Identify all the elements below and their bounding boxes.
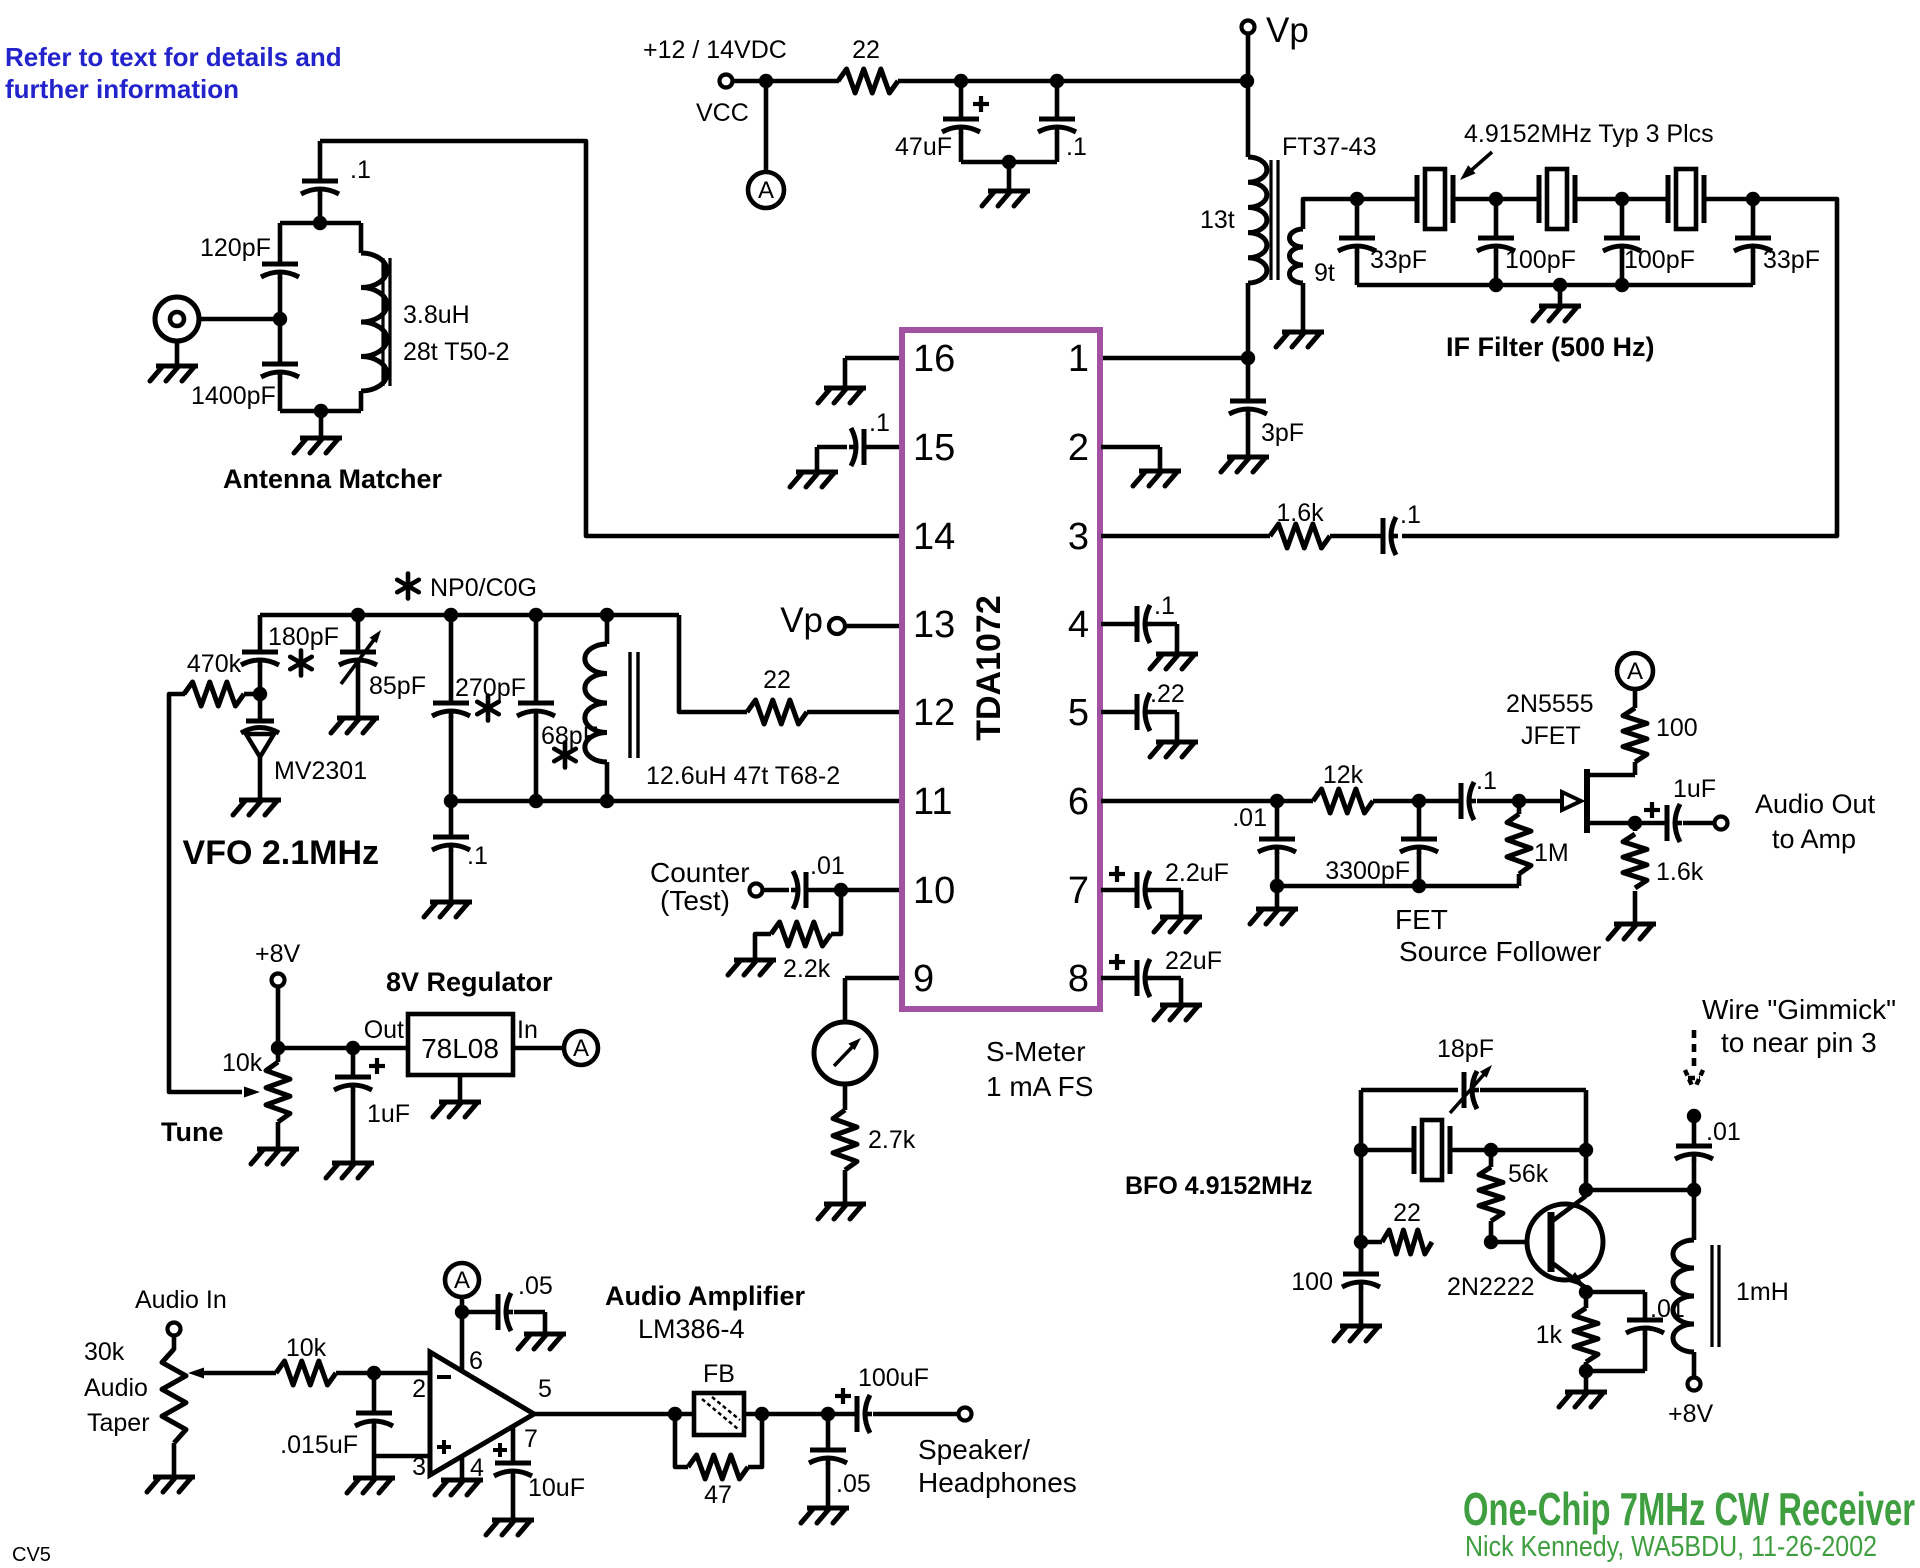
svg-text:further information: further information (5, 74, 239, 104)
wire: emitter to .01 (1586, 1290, 1645, 1295)
wire: BNC shell to ground (175, 341, 180, 364)
capacitor .01 (gimmick) (1675, 1116, 1713, 1190)
wire: 470k to tune pot (169, 694, 242, 1092)
text Taper (87, 1409, 150, 1437)
value 1uF (regulator) (367, 1100, 410, 1128)
value 100 (drain) (1656, 714, 1698, 742)
label JFET (1521, 722, 1581, 750)
svg-text:7: 7 (524, 1425, 538, 1453)
pin 7 label (524, 1425, 538, 1453)
meter A (supply current) (748, 172, 784, 208)
svg-text:.1: .1 (1476, 767, 1497, 795)
title Tune (161, 1117, 224, 1147)
wire: pin3 stub (1101, 534, 1270, 539)
junction emitter node (1579, 1285, 1593, 1299)
wire: matcher left lower (278, 377, 283, 411)
value 22 (pin12) (763, 666, 791, 694)
value 2.2uF (1165, 859, 1229, 887)
wire: 13t bottom to pin1 node (1246, 283, 1251, 358)
terminal audio in (168, 1323, 181, 1336)
pin numbers right (1,2,3,4,5,6,7,8) (1068, 338, 1089, 1000)
label 2N5555 (1506, 690, 1594, 718)
junction pin6 .05 node (455, 1305, 469, 1319)
capacitor .01 (pin6 shunt) (1258, 801, 1296, 886)
junction bus 85pF (351, 608, 365, 622)
wire: VFO top bus left drop (258, 615, 263, 651)
svg-text:1uF: 1uF (1673, 775, 1716, 803)
value .05 (output) (836, 1470, 871, 1498)
wire: xtal left lead (1361, 1148, 1414, 1153)
wire: VFO bottom bus to pin11 (451, 799, 899, 804)
svg-text:NP0/C0G: NP0/C0G (430, 574, 537, 602)
title VFO 2.1MHz (183, 834, 379, 872)
svg-text:Source Follower: Source Follower (1399, 936, 1601, 967)
svg-text:CV5: CV5 (12, 1544, 51, 1566)
capacitor .01 (counter) (763, 871, 899, 909)
svg-text:Audio Amplifier: Audio Amplifier (605, 1281, 805, 1311)
ground (pin16) (818, 388, 866, 403)
ground (2.2k) (728, 960, 776, 975)
resistor 2.2k (771, 922, 831, 946)
svg-text:30k: 30k (84, 1338, 125, 1366)
value 3.8uH (403, 301, 470, 329)
junction bus 100pF-1 (1489, 278, 1503, 292)
meter A (LM386 supply) (445, 1263, 479, 1297)
junction 8V node (271, 1041, 285, 1055)
svg-text:1k: 1k (1536, 1321, 1563, 1349)
svg-text:.01: .01 (1232, 804, 1267, 832)
wire: 78L08 ground stem (458, 1075, 463, 1100)
junction counter node (834, 883, 848, 897)
svg-text:.05: .05 (836, 1470, 871, 1498)
svg-text:Refer to text for details and: Refer to text for details and (5, 42, 342, 72)
svg-text:Wire "Gimmick": Wire "Gimmick" (1702, 994, 1896, 1025)
capacitor .1 (antenna coupling) (301, 141, 339, 223)
junction BFO base row left (1354, 1235, 1368, 1249)
value 180pF (268, 623, 339, 651)
value .01 (emitter) (1650, 1295, 1685, 1323)
text Headphones (918, 1467, 1077, 1498)
wire: crystal Y3 to output node (1704, 197, 1753, 202)
svg-text:13t: 13t (1200, 206, 1235, 234)
svg-text:56k: 56k (1508, 1160, 1549, 1188)
value 100pF (2) (1624, 246, 1695, 274)
capacitor 100 (BFO) (1342, 1242, 1380, 1324)
ground (pin4) (435, 1480, 483, 1495)
ground (pin6 bus) (1250, 909, 1298, 924)
ground (BFO emitter) (1559, 1392, 1607, 1407)
wire: VCC input to 22 ohm resistor (733, 79, 839, 84)
value .1 (VFO) (467, 842, 488, 870)
ground (1uF reg) (326, 1163, 374, 1178)
text Audio Out (1755, 789, 1876, 819)
capacitor .015uF (355, 1373, 393, 1456)
wire: IF filter ground bus (1357, 283, 1753, 288)
svg-text:3.8uH: 3.8uH (403, 301, 470, 329)
label 9t (1314, 259, 1335, 287)
wire: emitter network bottom (1586, 1369, 1645, 1374)
wire: matcher left upper (278, 223, 283, 262)
value .01 (pin6 shunt) (1232, 804, 1267, 832)
svg-text:.1: .1 (467, 842, 488, 870)
terminal speaker (959, 1408, 972, 1421)
junction 47uF top (954, 74, 968, 88)
resistor 47 (688, 1455, 748, 1479)
pin label Out (364, 1016, 404, 1044)
junction pin6 .01 (1270, 794, 1284, 808)
inductor 3.8uH 28t T50-2 (361, 253, 387, 391)
resistor 1.6k (pin3) (1270, 524, 1330, 548)
svg-text:(Test): (Test) (660, 885, 730, 916)
capacitor 100uF (828, 1388, 958, 1433)
resistor 1M (1507, 814, 1531, 874)
inductor 12.6uH 47t T68-2 (585, 615, 607, 801)
pin 3 label (412, 1453, 426, 1481)
wire: Vp terminal to pin13 (845, 624, 899, 629)
svg-text:11: 11 (913, 781, 952, 823)
arrow to crystal Y1 (1460, 152, 1492, 180)
title BFO 4.9152MHz (1125, 1172, 1313, 1200)
text CV5 (12, 1544, 51, 1566)
core 1mH (1712, 1245, 1719, 1347)
svg-text:+8V: +8V (1668, 1400, 1714, 1428)
junction matcher bottom (314, 404, 328, 418)
svg-text:2.2k: 2.2k (783, 955, 831, 983)
value 47 (704, 1481, 732, 1509)
capacitor .1 (pin15) (817, 428, 899, 470)
junction 3300pF node (1412, 794, 1426, 808)
wire: 2.2k to ground (755, 934, 771, 958)
text: refer note line1 (5, 42, 342, 72)
pin label In (517, 1016, 538, 1044)
title Antenna Matcher (223, 464, 443, 494)
capacitor 10uF (pin7) (493, 1426, 532, 1518)
wire: IF output right and down to pin3 network (1402, 199, 1837, 536)
wire: 78L08 In to meter (513, 1046, 563, 1051)
value .1 (supply bypass) (1066, 133, 1087, 161)
terminal +8V (regulator) (272, 974, 285, 987)
svg-text:.1: .1 (1066, 133, 1087, 161)
wire: 1k bottom (1584, 1362, 1589, 1371)
resistor 100 (drain) (1623, 708, 1647, 762)
ground (FET source) (1608, 924, 1656, 939)
svg-text:9t: 9t (1314, 259, 1335, 287)
resistor 10k (audio) (276, 1361, 336, 1385)
svg-text:33pF: 33pF (1370, 246, 1427, 274)
value 100uF (858, 1364, 929, 1392)
junction bottom bus 68pF (529, 794, 543, 808)
svg-text:FB: FB (703, 1360, 735, 1388)
svg-text:12: 12 (913, 692, 955, 734)
wire: 10k to opamp minus (336, 1371, 430, 1376)
wire: 8V node to 78L08 (278, 1046, 408, 1051)
svg-text:16: 16 (913, 338, 955, 380)
svg-text:Vp: Vp (1266, 11, 1309, 50)
label 2N2222 (1447, 1273, 1535, 1301)
resistor 12k (1313, 789, 1373, 813)
value .01 (counter) (810, 852, 845, 880)
wire: matcher left mid (278, 277, 283, 362)
arrowhead tune wiper (244, 1087, 260, 1098)
capacitor 100pF (shunt 2) (1603, 199, 1641, 285)
op-amp U2 LM386-4 (430, 1352, 534, 1475)
meter A (FET drain) (1617, 653, 1653, 689)
resistor 1k (1574, 1308, 1598, 1362)
label FB (703, 1360, 735, 1388)
junction bus ground stem (1553, 278, 1567, 292)
wire: pin1 to node (1101, 356, 1248, 361)
wire: collector to right branch (1586, 1188, 1694, 1193)
title 8V Regulator (386, 967, 553, 997)
junction Y1-Y2 node (1489, 192, 1503, 206)
value .015uF (280, 1431, 358, 1459)
svg-text:+12 / 14VDC: +12 / 14VDC (643, 36, 787, 64)
svg-text:2: 2 (1068, 427, 1089, 469)
junction Y2-Y3 node (1615, 192, 1629, 206)
capacitor 1uF (regulator) (334, 1048, 385, 1161)
svg-text:15: 15 (913, 427, 955, 469)
wire: drain up (1633, 762, 1638, 775)
wire: bus to ground (1558, 285, 1563, 305)
wire: pin3 row (374, 1454, 430, 1459)
svg-text:.1: .1 (350, 156, 371, 184)
svg-text:6: 6 (469, 1347, 483, 1375)
wire: matcher bottom to ground (319, 411, 324, 436)
value 10k (audio) (286, 1334, 327, 1362)
svg-text:10k: 10k (222, 1049, 263, 1077)
svg-text:8V Regulator: 8V Regulator (386, 967, 553, 997)
ground (BFO 100) (1334, 1326, 1382, 1341)
capacitor 3300pF (1400, 801, 1438, 886)
ground (pin4) (1150, 654, 1198, 669)
wire: BFO left vertical (1359, 1090, 1364, 1272)
junction pin1 node (1241, 351, 1255, 365)
value 470k (187, 650, 242, 678)
svg-text:5: 5 (538, 1375, 552, 1403)
svg-text:A: A (454, 1267, 470, 1294)
text Speaker/ (918, 1434, 1030, 1465)
svg-text:Out: Out (364, 1016, 404, 1044)
arrowhead audio wiper (188, 1368, 276, 1379)
capacitor 120pF (261, 264, 299, 279)
text Counter (650, 857, 750, 888)
capacitor 33pF (output shunt) (1734, 199, 1772, 285)
svg-text:180pF: 180pF (268, 623, 339, 651)
resistor 22 (pin12) (747, 700, 807, 724)
junction bus L1 (600, 608, 614, 622)
value 10k (tune) (222, 1049, 263, 1077)
svg-text:IF Filter (500 Hz): IF Filter (500 Hz) (1446, 332, 1655, 362)
resistor 56k (1479, 1167, 1503, 1221)
junction BFO xtal left (1354, 1143, 1368, 1157)
capacitor 2.2uF (pin7) (1101, 866, 1181, 915)
wire: pin9 stub (845, 976, 899, 981)
text FET (1395, 904, 1448, 935)
pin 2 label (412, 1375, 426, 1403)
svg-text:MV2301: MV2301 (274, 757, 367, 785)
ground (audio pot) (147, 1477, 195, 1492)
ground (pin8) (1154, 1005, 1202, 1020)
svg-text:Antenna Matcher: Antenna Matcher (223, 464, 443, 494)
junction VCC ammeter tap (759, 74, 773, 88)
svg-text:1.6k: 1.6k (1276, 499, 1324, 527)
wire: FET source bus (1277, 884, 1519, 889)
capacitor 22uF (pin8) (1101, 954, 1181, 1003)
transformer core FT37-43 (1271, 160, 1278, 280)
pin 4 label (470, 1454, 484, 1482)
text 1 mA FS (986, 1071, 1093, 1102)
svg-text:A: A (1627, 658, 1643, 685)
svg-text:270pF: 270pF (455, 674, 526, 702)
inductor 1mH (1673, 1190, 1694, 1377)
junction 1uF tap (346, 1041, 360, 1055)
svg-text:100: 100 (1291, 1268, 1333, 1296)
junction matcher top (313, 216, 327, 230)
regulator 78L08 box (408, 1014, 513, 1075)
wire: BFO top loop (1361, 1088, 1458, 1093)
svg-text:JFET: JFET (1521, 722, 1581, 750)
svg-text:Counter: Counter (650, 857, 750, 888)
junction base node (1484, 1235, 1498, 1249)
terminal Vp (pin13) (829, 618, 845, 634)
svg-text:4: 4 (1068, 604, 1089, 646)
capacitor .1 (pin4) (1101, 605, 1177, 652)
svg-text:1 mA FS: 1 mA FS (986, 1071, 1093, 1102)
capacitor 33pF (input shunt) (1338, 199, 1376, 285)
title One-Chip 7MHz CW Receiver (1463, 1483, 1915, 1535)
wire: 56k bottom stem (1489, 1221, 1494, 1242)
ground (2.7k) (818, 1204, 866, 1219)
node Vp (top) label (1266, 11, 1309, 50)
junction bus 68pF (529, 608, 543, 622)
svg-text:2.7k: 2.7k (868, 1126, 916, 1154)
wire: 1.6k to ground (1633, 891, 1638, 922)
svg-text:6: 6 (1068, 781, 1089, 823)
svg-text:22: 22 (852, 36, 880, 64)
junction FB left (668, 1407, 682, 1421)
pin 6 label (469, 1347, 483, 1375)
junction bus 3300pF (1412, 879, 1426, 893)
svg-text:1.6k: 1.6k (1656, 858, 1704, 886)
svg-text:8: 8 (1068, 958, 1089, 1000)
svg-text:A: A (758, 177, 774, 204)
ground (pin2) (1133, 471, 1181, 486)
text S-Meter (986, 1036, 1086, 1067)
value 22 (supply resistor) (852, 36, 880, 64)
wire: BFO top loop right (1480, 1088, 1586, 1093)
value 2.2k (783, 955, 831, 983)
ground (pin7) (1154, 917, 1202, 932)
svg-text:85pF: 85pF (369, 672, 426, 700)
svg-text:120pF: 120pF (200, 234, 271, 262)
value 1.6k (source) (1656, 858, 1704, 886)
wire: antenna matcher to pin14 (320, 141, 899, 536)
value 18pF (1437, 1035, 1494, 1063)
junction collector top node (1579, 1143, 1593, 1157)
svg-text:3300pF: 3300pF (1325, 857, 1410, 885)
svg-text:47uF: 47uF (895, 133, 952, 161)
svg-text:14: 14 (913, 516, 955, 558)
svg-text:12k: 12k (1323, 761, 1364, 789)
junction bottom bus .1 (444, 794, 458, 808)
subtitle author (1465, 1531, 1877, 1563)
svg-text:.015uF: .015uF (280, 1431, 358, 1459)
value 22 (BFO) (1393, 1199, 1421, 1227)
capacitor .22 (pin5) (1101, 693, 1177, 740)
resistor 22 (BFO base) (1382, 1230, 1432, 1254)
terminal audio out (1715, 817, 1728, 830)
value .01 (gimmick) (1706, 1118, 1741, 1146)
svg-text:BFO 4.9152MHz: BFO 4.9152MHz (1125, 1172, 1313, 1200)
svg-text:VCC: VCC (696, 99, 749, 127)
wire: 100 to meter (1633, 690, 1638, 708)
svg-text:18pF: 18pF (1437, 1035, 1494, 1063)
value 56k (1508, 1160, 1549, 1188)
wire: filter input to crystal Y1 (1357, 197, 1417, 202)
wire: crystal Y2 to node (1575, 197, 1668, 202)
junction bus 270pF (444, 608, 458, 622)
wire: matcher right upper (359, 223, 364, 253)
svg-text:.1: .1 (869, 409, 890, 437)
svg-text:22uF: 22uF (1165, 947, 1222, 975)
wire: 9t top to IF filter input (1303, 199, 1357, 229)
value .1 (gate coupling) (1476, 767, 1497, 795)
svg-text:VFO 2.1MHz: VFO 2.1MHz (183, 834, 379, 872)
value 1.6k (pin3) (1276, 499, 1324, 527)
svg-text:100pF: 100pF (1505, 246, 1576, 274)
value 1uF (audio out) (1673, 775, 1716, 803)
label 13t (1200, 206, 1235, 234)
capacitor .05 (supply) (462, 1293, 545, 1332)
svg-text:Headphones: Headphones (918, 1467, 1077, 1498)
wire: VCC tap down to meter A (764, 87, 769, 172)
svg-text:Audio Out: Audio Out (1755, 789, 1876, 819)
meter A (regulator input) (564, 1031, 598, 1065)
ground (.05 output) (801, 1508, 849, 1523)
wire: pin3 ground stem (372, 1456, 377, 1476)
junction gimmick node (1687, 1183, 1701, 1197)
text Source Follower (1399, 936, 1601, 967)
text Wire Gimmick (1702, 994, 1896, 1025)
svg-text:470k: 470k (187, 650, 242, 678)
svg-text:100pF: 100pF (1624, 246, 1695, 274)
svg-text:3: 3 (1068, 516, 1089, 558)
value .1 (pin4) (1154, 592, 1175, 620)
value 3pF (1261, 419, 1304, 447)
svg-text:Tune: Tune (161, 1117, 224, 1147)
value .1 (antenna coupling) (350, 156, 371, 184)
wire: meter to 2.7k (843, 1084, 848, 1110)
value 120pF (200, 234, 271, 262)
capacitor 68pF (517, 615, 576, 800)
wire: pin16 stub (845, 356, 899, 361)
svg-text:Vp: Vp (780, 601, 823, 640)
ground (tune pot) (251, 1149, 299, 1164)
value 47uF (895, 133, 952, 161)
capacitor .1 (supply bypass) (1038, 81, 1076, 162)
svg-text:.22: .22 (1150, 680, 1185, 708)
svg-text:A: A (573, 1035, 589, 1062)
wire: matcher right lower (359, 391, 364, 411)
svg-text:7: 7 (1068, 870, 1089, 912)
text (Test) (660, 885, 730, 916)
wire: 9t bottom to ground (1301, 283, 1306, 330)
wire: 470k to varactor node (244, 692, 260, 697)
wire: bypass caps common (961, 160, 1057, 165)
svg-text:FT37-43: FT37-43 (1282, 133, 1376, 161)
wire: 56k top stem (1489, 1150, 1494, 1167)
svg-text:.1: .1 (1154, 592, 1175, 620)
